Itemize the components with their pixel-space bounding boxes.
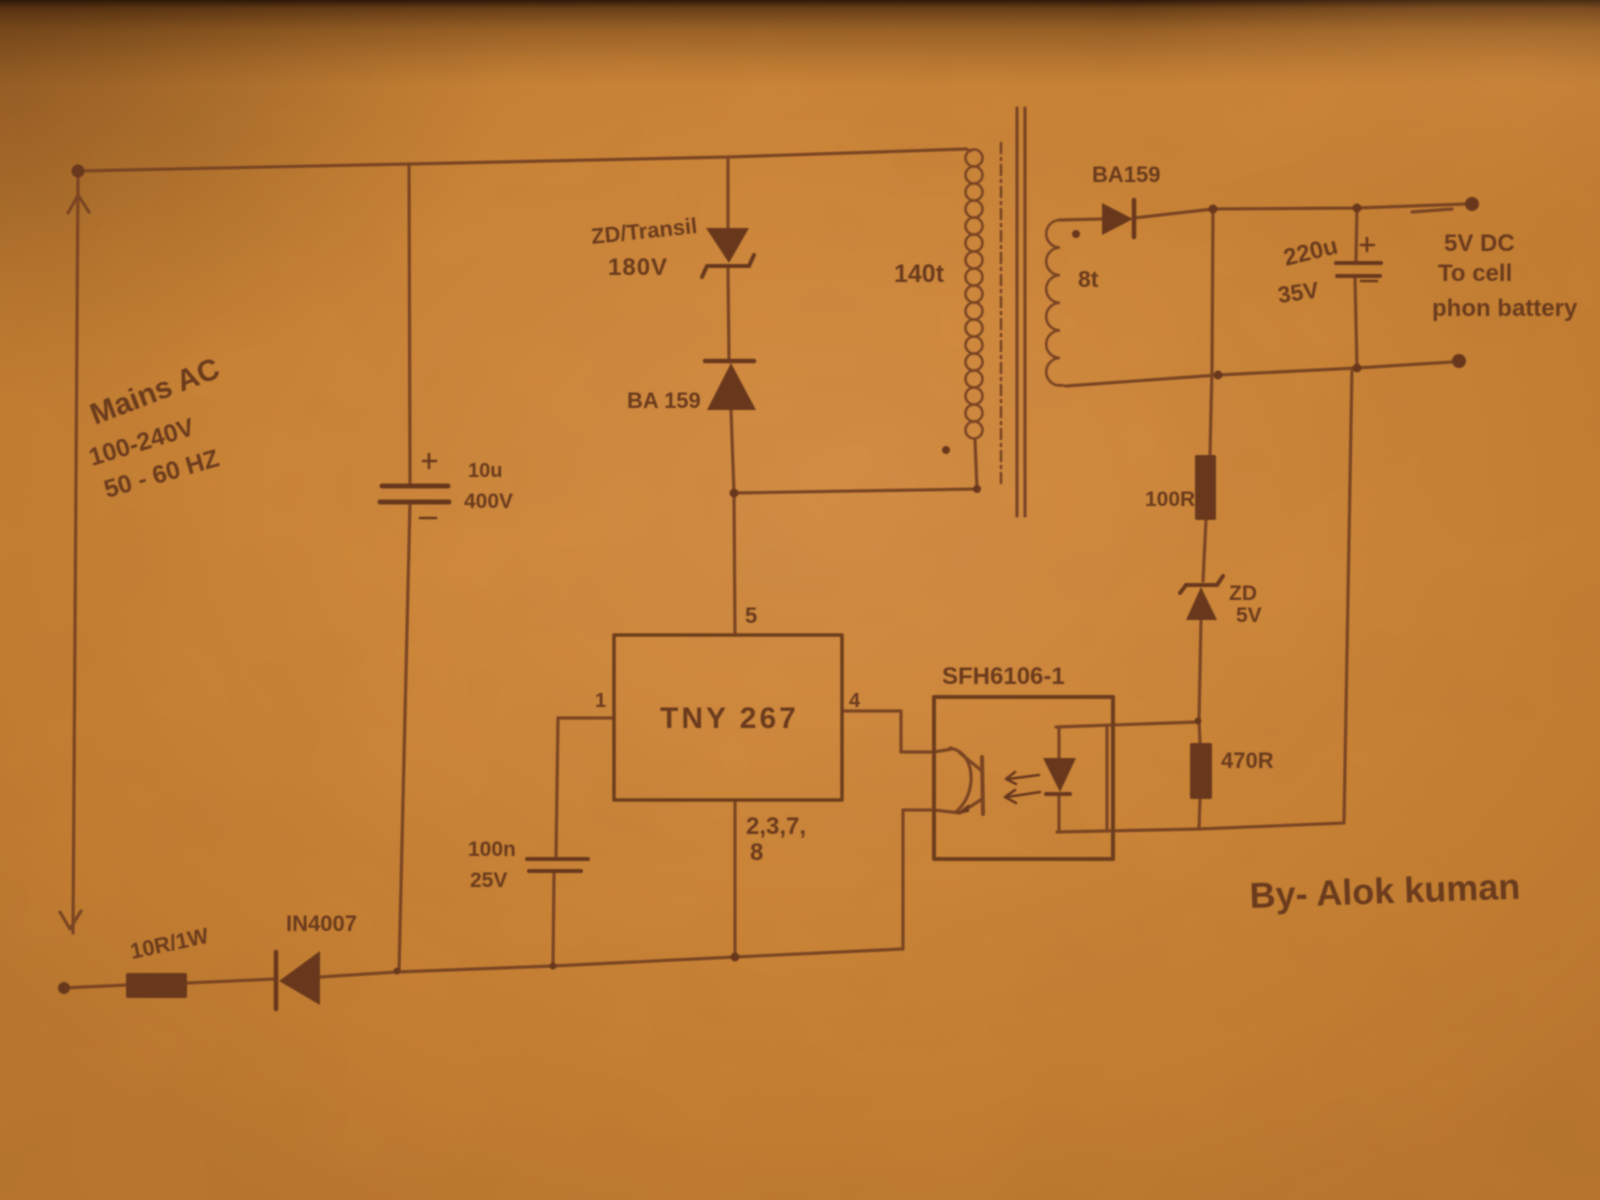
svg-text:phon battery: phon battery	[1432, 295, 1578, 322]
svg-text:ZD: ZD	[1229, 582, 1257, 605]
svg-text:5: 5	[745, 603, 757, 628]
svg-text:SFH6106-1: SFH6106-1	[942, 663, 1065, 690]
svg-text:10u: 10u	[468, 460, 502, 482]
svg-text:BA159: BA159	[1092, 162, 1160, 187]
svg-text:180V: 180V	[608, 254, 668, 281]
svg-text:400V: 400V	[464, 490, 513, 513]
svg-text:470R: 470R	[1221, 748, 1274, 773]
svg-text:8: 8	[750, 839, 763, 866]
svg-text:To cell: To cell	[1438, 260, 1512, 287]
svg-text:BA 159: BA 159	[627, 388, 701, 413]
svg-text:100n: 100n	[468, 838, 516, 861]
svg-text:8t: 8t	[1078, 266, 1099, 292]
svg-text:TNY 267: TNY 267	[660, 702, 799, 735]
svg-text:5V DC: 5V DC	[1444, 230, 1515, 257]
svg-text:1: 1	[595, 690, 606, 712]
svg-text:5V: 5V	[1236, 604, 1262, 627]
svg-text:140t: 140t	[894, 260, 945, 288]
svg-text:4: 4	[849, 690, 861, 712]
svg-text:100R: 100R	[1145, 488, 1195, 511]
svg-text:IN4007: IN4007	[286, 911, 357, 936]
svg-text:2,3,7,: 2,3,7,	[746, 813, 806, 840]
svg-text:25V: 25V	[470, 869, 507, 892]
